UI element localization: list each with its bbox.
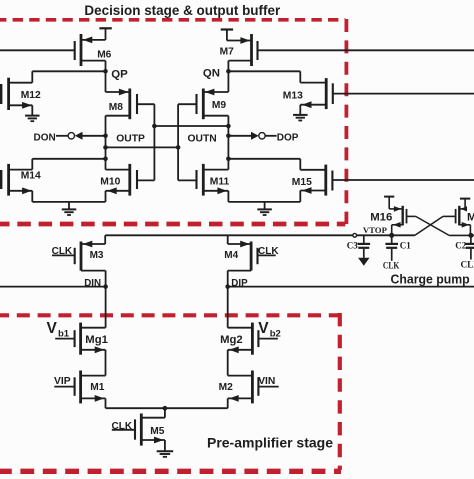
svg-text:M15: M15 — [292, 177, 312, 188]
svg-text:CLK: CLK — [383, 261, 400, 271]
svg-text:DOP: DOP — [277, 132, 299, 143]
svg-text:DIP: DIP — [231, 278, 248, 289]
svg-text:M5: M5 — [150, 426, 164, 437]
svg-text:CLK: CLK — [461, 260, 474, 270]
svg-text:M16: M16 — [370, 212, 392, 224]
svg-text:M13: M13 — [283, 91, 303, 102]
svg-text:M8: M8 — [109, 102, 123, 113]
svg-text:OUTP: OUTP — [116, 134, 145, 145]
svg-text:CLK: CLK — [258, 246, 279, 257]
svg-text:Decision stage & output buffer: Decision stage & output buffer — [84, 2, 280, 18]
svg-text:M12: M12 — [21, 90, 41, 101]
svg-text:VTOP: VTOP — [363, 225, 388, 235]
svg-text:DON: DON — [34, 133, 56, 144]
svg-text:M14: M14 — [21, 170, 41, 181]
svg-text:DIN: DIN — [84, 278, 101, 289]
svg-text:C3: C3 — [347, 241, 358, 251]
svg-text:CLK: CLK — [112, 421, 133, 432]
svg-text:V: V — [258, 320, 269, 337]
svg-text:QN: QN — [203, 67, 220, 79]
svg-text:Mg2: Mg2 — [220, 334, 243, 346]
svg-text:b1: b1 — [58, 329, 70, 340]
svg-text:M2: M2 — [219, 382, 233, 393]
svg-text:M7: M7 — [220, 46, 234, 57]
svg-text:M9: M9 — [212, 100, 226, 111]
svg-text:M3: M3 — [90, 250, 104, 261]
svg-text:OUTN: OUTN — [188, 134, 217, 145]
svg-text:VIP: VIP — [54, 376, 71, 387]
svg-text:VIN: VIN — [258, 376, 275, 387]
svg-text:QP: QP — [111, 69, 128, 81]
svg-text:Pre-amplifier stage: Pre-amplifier stage — [207, 435, 333, 450]
svg-text:CLK: CLK — [52, 246, 73, 257]
svg-text:V: V — [47, 320, 58, 337]
svg-text:Mg1: Mg1 — [85, 334, 108, 346]
svg-text:b2: b2 — [270, 329, 281, 340]
svg-text:M4: M4 — [224, 250, 238, 261]
svg-text:M1: M1 — [90, 382, 104, 393]
svg-text:M10: M10 — [100, 177, 120, 188]
svg-text:C2: C2 — [455, 240, 466, 250]
svg-text:M6: M6 — [97, 49, 111, 60]
svg-text:Charge pump: Charge pump — [391, 273, 470, 287]
svg-text:C1: C1 — [400, 241, 411, 251]
svg-text:M17: M17 — [467, 212, 474, 224]
svg-text:M11: M11 — [210, 177, 230, 188]
